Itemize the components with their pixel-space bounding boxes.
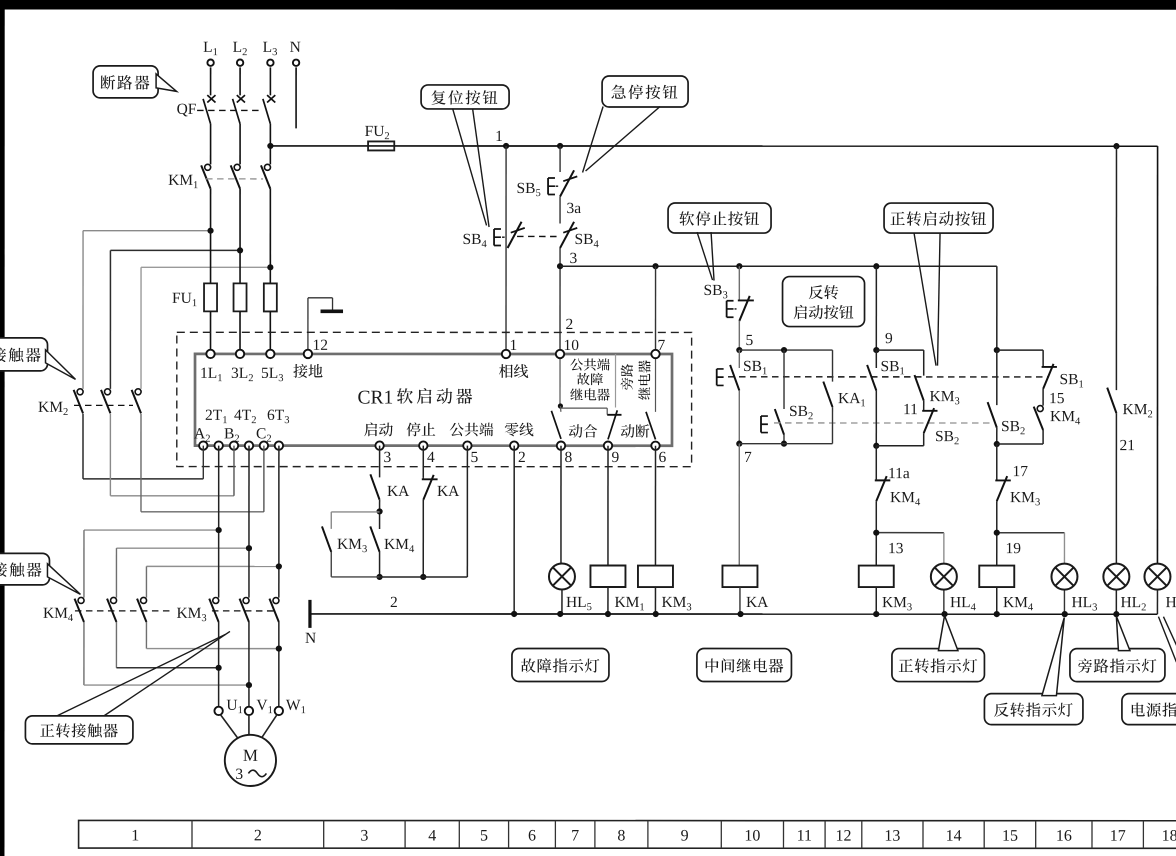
terminal L3 top (267, 60, 273, 66)
svg-text:3: 3 (235, 766, 243, 783)
svg-text:10: 10 (744, 828, 760, 845)
text donghe (569, 424, 583, 438)
wire KM4 coil-rail (996, 587, 998, 614)
contactor coil KM3 (859, 566, 894, 588)
reverse button SB2 contact B NC (922, 410, 937, 412)
wire N drop (295, 67, 297, 128)
wire KM2aux upper (1115, 146, 1117, 390)
start button SB1 contact A (738, 350, 740, 368)
breaker QF pole 1 (207, 95, 215, 102)
svg-text:N: N (305, 630, 316, 647)
svg-text:KA: KA (387, 483, 410, 500)
svg-text:7: 7 (571, 827, 579, 844)
wire phase feed (505, 146, 507, 354)
svg-text:QF: QF (177, 101, 197, 118)
callout breaker label (93, 66, 158, 98)
wire line3 lower (379, 500, 381, 529)
svg-text:9: 9 (885, 330, 893, 347)
text bypass relay rotated (621, 364, 633, 390)
wire line3 KA (379, 446, 381, 478)
svg-text:1: 1 (131, 827, 139, 844)
svg-text:14: 14 (946, 828, 962, 845)
wire SB1a lower (738, 390, 740, 443)
bypass relay contact (655, 354, 657, 412)
wire fwd mid (875, 390, 877, 445)
wire KM2 feed from L3 (141, 266, 270, 268)
wire KM4 feed 2 (116, 547, 249, 549)
svg-text:6: 6 (528, 827, 536, 844)
callout fwd start label (884, 203, 993, 233)
svg-text:4: 4 (427, 449, 435, 466)
callout estop label (602, 76, 688, 107)
wire KM3 aux upper (923, 350, 925, 376)
reset button SB4 right contact (560, 222, 574, 248)
terminal L2 top (237, 60, 243, 66)
contactor coil KM4 (979, 566, 1014, 588)
wire KM3 coil-rail (875, 587, 877, 614)
soft starter outer dashed box (177, 332, 692, 466)
callout relay label (697, 649, 792, 682)
wire L1 FU1-box (210, 311, 212, 354)
svg-text:3: 3 (360, 827, 368, 844)
wire KM4 crossover to U1 (115, 622, 117, 668)
callout power lamp label (1122, 694, 1176, 725)
terminal A2 (199, 441, 207, 449)
motor terminal V1 (245, 707, 253, 715)
wire rev upper (996, 266, 998, 350)
text zero (505, 423, 519, 437)
svg-text:17: 17 (1110, 828, 1126, 845)
motor terminal U1 (214, 707, 222, 715)
wire fwd upper (875, 266, 877, 350)
wire KM3bcoil-rail (654, 587, 656, 614)
start button SB1 contact C NC (1042, 366, 1057, 368)
soft starter CR1 box (195, 354, 672, 446)
svg-text:8: 8 (617, 828, 625, 845)
wire SB5-SB4 (559, 196, 561, 223)
text dongduan (621, 424, 635, 438)
terminal phase 1 (502, 350, 510, 358)
wire V1 drop (248, 622, 250, 707)
svg-text:CR1: CR1 (358, 387, 394, 408)
svg-text:15: 15 (1049, 390, 1065, 407)
svg-text:12: 12 (835, 828, 851, 845)
breaker QF pole 2 (237, 95, 245, 102)
callout bypass lamp label (1070, 649, 1165, 682)
node SB3 dot (736, 263, 742, 269)
wire KM3aux-SB2b (923, 401, 925, 412)
NO contact dongHE (559, 406, 562, 412)
wire KA coil feed (738, 444, 740, 566)
callout contactor label 1 (0, 338, 48, 371)
svg-text:9: 9 (611, 449, 619, 466)
wire KM3 bridge bottom (330, 552, 332, 577)
terminal start 3 (375, 441, 383, 449)
terminal common 5 (463, 441, 471, 449)
lamp HL3 (1063, 590, 1065, 615)
wire L3 QF-KM1 (269, 124, 271, 165)
wire y577 (380, 576, 468, 578)
svg-text:18: 18 (1162, 828, 1176, 845)
contactor KM4 pole 2 (111, 597, 117, 603)
relay contact KA start (370, 474, 379, 500)
wire KM2 out to C2 (140, 414, 142, 512)
node KM2 dot (1113, 143, 1119, 149)
svg-text:1: 1 (495, 128, 503, 145)
wire line8 HL5 (560, 446, 562, 564)
SB1 linkage (728, 376, 1049, 378)
contactor KM1 pole 1 (205, 164, 211, 170)
svg-text:1: 1 (510, 337, 518, 354)
contactor KM2 pole 3 (135, 389, 141, 395)
reverse button SB2 contact C (996, 350, 998, 405)
wire KA1 lower (831, 407, 833, 444)
node 7 dot (652, 263, 658, 269)
callout fwd contactor label (25, 716, 133, 744)
svg-text:11: 11 (797, 828, 812, 845)
svg-text:3: 3 (383, 449, 391, 466)
wire rev parallel bottom (997, 443, 1043, 445)
terminal 4T2 (245, 441, 253, 449)
wire KM3 bridge top (331, 511, 379, 513)
wire SB3-5 (738, 321, 740, 350)
svg-text:5: 5 (480, 827, 488, 844)
svg-text:15: 15 (1002, 828, 1018, 845)
svg-text:N: N (290, 39, 301, 56)
ruler strip (79, 820, 1176, 848)
KM2 linkage (74, 404, 133, 406)
wire L2 drop (239, 67, 241, 95)
emergency stop SB5 (560, 170, 574, 196)
QF linkage (197, 109, 263, 111)
start button SB1 contact B (875, 350, 877, 368)
contactor KM3 pole 3 (273, 598, 279, 604)
contactor KM3 pole 1 (213, 598, 219, 604)
terminal N top (293, 60, 299, 66)
wire 5 horizontal (739, 349, 832, 351)
svg-text:11: 11 (903, 401, 918, 418)
wire HL3 feed (997, 532, 1065, 534)
terminal 3L2 (236, 350, 244, 358)
terminal L1 top (207, 60, 213, 66)
wire line5 (466, 446, 468, 577)
wire T3 column (278, 446, 280, 598)
wire T1 column (218, 446, 220, 598)
terminal 6T3 (275, 441, 283, 449)
callout soft stop label (668, 203, 771, 233)
soft stop button SB3 (738, 299, 754, 301)
wire B2 drop (233, 446, 235, 496)
wire fwd parallel top (876, 349, 923, 351)
contactor aux KM4 NO b (370, 526, 379, 552)
text common-fault-relay (570, 358, 583, 370)
wire KM1coil-rail (607, 587, 609, 614)
relay contact KA1 (823, 382, 832, 408)
wire terminal7 up (655, 266, 657, 354)
frame left bar (0, 0, 5, 856)
wire 1 horizontal (270, 145, 1157, 147)
text ground (293, 364, 307, 378)
wire rev 17 (996, 444, 998, 480)
wire KM4 crossover to W1 (145, 622, 147, 649)
node SB5 dot (557, 143, 563, 149)
contactor KM2 pole 1 (77, 389, 83, 395)
wire fwd 13 (875, 501, 877, 566)
svg-text:2: 2 (390, 594, 398, 611)
wire SB1c upper (1042, 350, 1044, 367)
wire L2 QF-KM1 (239, 124, 241, 165)
svg-text:9: 9 (681, 828, 689, 845)
fault relay common feed (559, 354, 561, 406)
svg-text:M: M (243, 746, 258, 765)
contactor KM1 pole 3 (264, 164, 270, 170)
svg-text:KA: KA (746, 594, 769, 611)
contactor KM4 pole 1 (78, 597, 84, 603)
NC contact dongDUAN feed (560, 407, 607, 409)
wire line2 to N (513, 446, 515, 614)
svg-text:4: 4 (428, 827, 436, 844)
wire KM2aux-HL2 (1115, 413, 1117, 563)
svg-text:HL1: HL1 (1165, 594, 1176, 613)
terminal NO 8 (557, 441, 565, 449)
wire rev mid (996, 428, 998, 444)
N terminal bar (308, 600, 311, 628)
terminal 5L3 (266, 350, 274, 358)
wire line9 KM1coil (607, 446, 609, 566)
reverse button SB2 contact A (775, 409, 784, 435)
terminal 2T1 (214, 441, 222, 449)
svg-text:6: 6 (658, 449, 666, 466)
svg-text:5: 5 (746, 332, 754, 349)
wire W1 drop (278, 622, 280, 707)
wire fwd parallel bottom (876, 445, 923, 447)
wire KM4 feed 3 (146, 565, 278, 567)
wire L3 drop (269, 67, 271, 95)
terminal 1L1 (206, 350, 214, 358)
contactor KM4 pole 3 (141, 597, 147, 603)
wire KM4 feed 1 (84, 529, 219, 531)
node 9f dot (873, 263, 879, 269)
fuse FU1-3 (264, 283, 277, 311)
svg-text:2: 2 (518, 449, 526, 466)
wire U1 drop (218, 622, 220, 707)
svg-text:13: 13 (888, 540, 904, 557)
wire L1 drop (210, 67, 212, 95)
wire KM4aux lower (1042, 430, 1044, 444)
wire SB2 branch upper (783, 350, 785, 409)
svg-text:12: 12 (313, 337, 329, 354)
text phase (499, 364, 513, 378)
svg-text:7: 7 (658, 337, 666, 354)
motor M (225, 735, 276, 786)
wire C2 drop (263, 446, 265, 512)
terminal NC 9 (604, 442, 612, 450)
wire KA1 branch upper (832, 350, 834, 382)
callout rev lamp label (984, 694, 1083, 725)
fuse FU1-2 (234, 283, 247, 311)
contactor aux KM4 NO (1037, 406, 1043, 412)
text common (450, 423, 464, 436)
SB4 linkage (517, 235, 558, 237)
lamp HL1 (1156, 576, 1158, 578)
KM1 linkage (206, 178, 263, 180)
svg-text:11a: 11a (888, 465, 910, 482)
svg-text:3a: 3a (567, 200, 582, 217)
callout fault lamp label (512, 648, 609, 681)
contactor coil KM1 (590, 566, 625, 588)
wire KM2 feed from L2 (110, 249, 240, 251)
callout reset button label (421, 85, 509, 109)
wire rev 19 (996, 501, 998, 565)
wire SB4-node3 (559, 248, 561, 354)
reset button SB4 left contact (508, 222, 522, 248)
svg-text:2: 2 (254, 827, 262, 844)
wire L1 QF-KM1 (210, 124, 212, 165)
svg-text:2: 2 (566, 316, 574, 333)
svg-text:10: 10 (564, 337, 580, 354)
svg-text:7: 7 (744, 449, 752, 466)
wire SB5 column upper (559, 146, 561, 172)
wire KM2 out to A2 (82, 414, 84, 479)
wire KM4 crossover to V1 (83, 622, 85, 685)
lamp HL2 (1115, 576, 1117, 578)
relay coil KA (722, 566, 757, 588)
svg-text:5: 5 (470, 449, 478, 466)
motor leads (221, 715, 240, 741)
relay contact KA stop (422, 478, 438, 480)
frame top bar (0, 0, 1176, 10)
text start (364, 422, 377, 436)
SB2 linkage (774, 422, 993, 424)
wire T2 column (248, 446, 250, 598)
wire KA coil-rail (739, 587, 741, 614)
terminal common 10 (556, 350, 564, 358)
wire 7 horizontal (739, 443, 832, 445)
terminal C2 (260, 441, 268, 449)
fuse FU2 (368, 141, 394, 150)
interlock KM4 NC (875, 479, 890, 481)
divider (615, 354, 617, 408)
motor terminal W1 (275, 707, 283, 715)
wire L3 FU1-box (269, 311, 271, 354)
contactor aux KM2 NO (1107, 388, 1116, 414)
svg-text:3: 3 (570, 250, 578, 267)
contactor KM3 pole 2 (243, 598, 249, 604)
contactor aux KM3 NO (915, 375, 924, 401)
wire rev parallel top (997, 349, 1043, 351)
callout contactor label 2 (0, 553, 49, 585)
terminal bypass 7 (651, 350, 659, 358)
ground symbol (307, 298, 309, 354)
svg-text:16: 16 (1056, 828, 1072, 845)
wire A2 drop (202, 446, 204, 479)
wire SB2a lower (783, 435, 785, 444)
contactor KM1 pole 2 (234, 164, 240, 170)
wire fwd 11a (875, 446, 877, 481)
wire SB2b lower (923, 433, 925, 446)
wire KM2 feed from L1 (83, 230, 210, 232)
KM4 KM3 linkage (75, 610, 172, 612)
svg-text:21: 21 (1119, 437, 1135, 454)
lamp HL4 (943, 590, 945, 615)
terminal B2 (230, 441, 238, 449)
wire L2 FU1-box (239, 311, 241, 354)
svg-text:8: 8 (564, 449, 572, 466)
wire SB3 upper (738, 266, 740, 300)
wire L1 KM1-FU1 (210, 189, 212, 284)
breaker QF pole 3 (267, 95, 275, 102)
wire L2 KM1-FU1 (239, 189, 241, 284)
wire 3 horizontal (560, 265, 997, 267)
terminal stop 4 (419, 441, 427, 449)
fuse FU1-1 (204, 283, 217, 311)
contactor aux KM3 NO b (322, 526, 331, 552)
wire L3 KM1-FU1 (269, 189, 271, 284)
svg-text:17: 17 (1012, 463, 1028, 480)
interlock KM3 NC (995, 479, 1011, 481)
terminal relay 6 (651, 442, 659, 450)
wire SB1c-KM4aux (1042, 389, 1044, 406)
callout fwd lamp label (892, 649, 985, 682)
text stop (407, 422, 421, 436)
svg-text:13: 13 (884, 828, 900, 845)
wire KM2 out to B2 (109, 414, 111, 496)
wire line4 lower (422, 500, 424, 577)
wire line6 KM3coil (654, 446, 656, 566)
contactor coil KM3 b (638, 566, 673, 588)
lamp HL5 (561, 575, 563, 577)
terminal zero 2 (510, 441, 518, 449)
node 1 dot (503, 143, 509, 149)
wire line4 KA (422, 446, 424, 478)
callout rev start label (783, 277, 865, 327)
svg-text:KA: KA (437, 483, 460, 500)
N rail (310, 613, 1158, 615)
terminal ground (304, 350, 312, 358)
contactor KM2 pole 2 (105, 389, 111, 395)
wire HL4 feed (876, 532, 944, 534)
svg-text:19: 19 (1005, 540, 1021, 557)
